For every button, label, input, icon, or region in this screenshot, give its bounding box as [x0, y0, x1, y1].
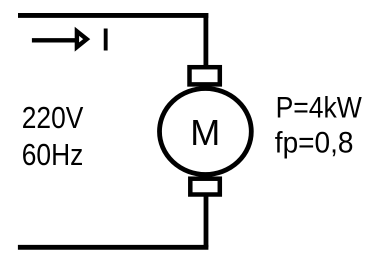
current arrow I (shaft) [32, 38, 78, 42]
current arrow I (open arrowhead) [77, 31, 87, 47]
motor M: bottom brush terminal [190, 179, 220, 195]
wire: bottom vertical from motor bottom terminal [204, 196, 209, 247]
svg-text:60Hz: 60Hz [22, 138, 83, 172]
svg-text:M: M [190, 112, 220, 153]
svg-text:220V: 220V [22, 101, 84, 135]
wire: right vertical drop to motor top terminal [203, 13, 208, 67]
wire: top horizontal supply lead [18, 13, 208, 18]
svg-text:P=4kW: P=4kW [276, 91, 363, 124]
svg-text:fp=0,8: fp=0,8 [275, 127, 354, 160]
wire: bottom horizontal supply lead [18, 245, 209, 250]
motor M: top brush terminal [190, 67, 220, 84]
svg-text:I: I [101, 22, 110, 57]
motor M: stator circle [160, 89, 252, 175]
